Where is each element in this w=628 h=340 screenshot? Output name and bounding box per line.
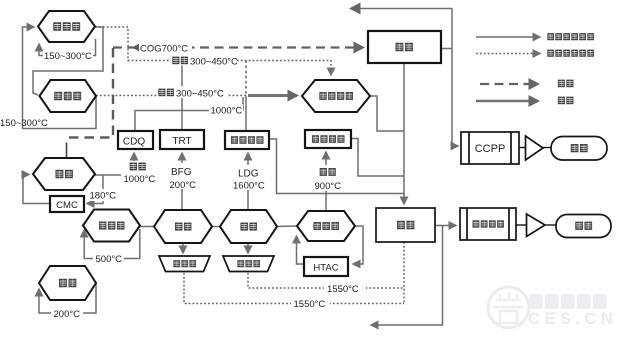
wire: waste heat boiler out to steam header (370, 96, 404, 131)
svg-text:HTAC: HTAC (313, 263, 338, 274)
connector triangle-stadium (543, 147, 551, 149)
label 高炉 (175, 223, 191, 231)
wire: junction down into vaporizer1 (245, 96, 247, 132)
box 烟道汽化 1 (225, 131, 269, 149)
label 1000C steam header (209, 104, 243, 116)
label 环冷机 (54, 92, 81, 100)
hexagon 热风炉 hot blast stove (83, 210, 140, 242)
stadium 发电 2 (556, 215, 611, 238)
box 烟道汽化 2 (305, 130, 351, 148)
wire: converter down to slag (247, 243, 249, 253)
wire dotted: converter slag 1550C line (upper) (248, 273, 404, 288)
svg-text:CCPP: CCPP (475, 143, 506, 155)
svg-text:300~450°C: 300~450°C (176, 89, 224, 100)
wire dotted: vertical link flue-gas line down to waste-gas line (245, 61, 247, 96)
wire: vaporizer2 out to steam header (351, 139, 404, 177)
label 发电 2 (575, 222, 592, 230)
wire: gas box up and left across top (recycled gas) (351, 9, 452, 49)
trapezoid 转炉渣 converter slag (223, 256, 274, 272)
wire: TRT up to flue-gas dotted line (181, 61, 183, 131)
wire dotted: cooler waste gas line (96, 95, 246, 97)
label 热风炉 (99, 222, 124, 230)
box HTAC (304, 257, 348, 276)
box CMC (50, 196, 84, 212)
svg-text:200°C: 200°C (54, 309, 81, 320)
label 1550C lower (291, 297, 330, 309)
hexagon 环冷机 circular cooler (40, 80, 97, 112)
legend dotted: unused waste heat (476, 53, 540, 55)
trapezoid 高炉渣 BF slag (159, 256, 210, 272)
triangle 1 (526, 136, 544, 160)
label 烟道汽化 1 (231, 136, 264, 144)
wire: reheat furnace up to vaporizer2 (gas 900C) (325, 152, 327, 211)
box 煤气 gas (368, 31, 441, 63)
arrowhead left on COG line (132, 43, 141, 51)
wire: converter - reheat furnace link (277, 225, 297, 228)
svg-text:150~300°C: 150~300°C (44, 51, 92, 62)
wire: gas box down to steam box (403, 63, 405, 204)
box TRT (160, 130, 204, 149)
legend solid: already used waste heat (476, 36, 540, 38)
wire: coke oven down to CMC 180C (87, 175, 103, 204)
label 180C (87, 189, 117, 201)
legend label 余热 (558, 97, 574, 105)
label 煤气 gas box (395, 43, 412, 51)
svg-text:1000°C: 1000°C (124, 174, 156, 185)
wire: hot stove self loop 500C (84, 229, 140, 259)
wire: lime kiln self loop 200C (39, 283, 96, 313)
label 200C (51, 307, 83, 319)
wire: steam branch down and left arrow (371, 226, 443, 326)
label 灰窑 (59, 279, 76, 287)
svg-text:1000°C: 1000°C (211, 105, 243, 116)
svg-text:1600°C: 1600°C (233, 180, 265, 191)
wire: CDQ top to 1000C header (135, 97, 243, 131)
svg-text:500°C: 500°C (96, 254, 123, 265)
label COG700C (139, 42, 192, 53)
svg-text:CDQ: CDQ (123, 136, 145, 147)
box 蒸汽 steam (376, 208, 435, 242)
label 蒸汽 (397, 221, 414, 229)
label 500C (93, 252, 124, 264)
svg-text:150~300°C: 150~300°C (0, 118, 48, 129)
label 烟道汽化 2 (312, 135, 345, 143)
label 加热炉 (313, 222, 338, 230)
wire: hot stove - blast furnace link (140, 226, 154, 228)
connector CCPP-triangle (519, 147, 525, 149)
svg-text:LDG: LDG (238, 169, 259, 180)
svg-text:1550°C: 1550°C (294, 299, 326, 310)
svg-text:300~450°C: 300~450°C (190, 56, 238, 67)
hexagon 灰窑 lime kiln (39, 266, 96, 300)
label 烧结机 (53, 22, 80, 30)
svg-text:CMC: CMC (56, 200, 78, 211)
wire: thick arrow into waste heat boiler (248, 94, 297, 97)
wire: HTAC return to reheat furnace (297, 236, 305, 264)
hexagon 焦炉 coke oven (33, 158, 95, 190)
label BFG 200C (167, 163, 198, 189)
wire dashed: vertical boundary (67, 48, 114, 138)
symbol 汽轮机组 (predefined process) (460, 208, 516, 240)
svg-text:1550°C: 1550°C (327, 284, 359, 295)
symbol CCPP (predefined process) (461, 132, 519, 164)
wire: short link into coke oven top (66, 143, 68, 158)
legend label 已经利用余热 (547, 33, 594, 40)
stadium 发电 1 (551, 137, 607, 161)
label 高炉渣 (173, 260, 196, 267)
legend label 余能 (558, 80, 574, 88)
hexagon 加热炉 reheating furnace (297, 211, 355, 241)
wire: blast furnace - converter link (212, 226, 220, 228)
label 余热锅炉 (319, 92, 353, 100)
svg-text:900°C: 900°C (315, 181, 342, 192)
label 汽轮机组 (473, 220, 504, 227)
wire: sinter to cooler (33, 27, 103, 95)
label 红焦 1000C (121, 161, 157, 184)
wire: blast furnace up to TRT (BFG 200C) (181, 153, 183, 210)
label 煤气 900C (312, 165, 344, 191)
label 1550C upper (324, 282, 366, 294)
connector triangle-stadium 2 (545, 224, 556, 226)
label 转炉 (240, 223, 256, 231)
legend dashed: residual energy (480, 83, 538, 85)
wire: sinter self-loop 150~300C (39, 39, 96, 56)
label 150~300C sinter loop (43, 49, 93, 61)
label 焦炉 (55, 170, 72, 178)
label 发电 1 (571, 144, 588, 152)
hexagon 转炉 converter (220, 210, 277, 243)
wire dotted: sinter flue gas to boiler top (95, 27, 331, 75)
triangle 2 (527, 214, 546, 237)
legend label 尚未利用余热 (547, 50, 594, 57)
label LDG 1600C (231, 165, 265, 190)
wire: gas box to CCPP (441, 49, 458, 147)
wire: reheat furnace to HTAC loop (353, 226, 363, 264)
wire: converter up to vaporizer1 (LDG 1600C) (247, 153, 249, 210)
svg-text:180°C: 180°C (90, 191, 117, 202)
wire: steam to turbine (435, 225, 456, 227)
wire: coke oven to CDQ (red coke 1000C) (95, 153, 134, 175)
svg-text:200°C: 200°C (170, 180, 197, 191)
svg-text:TRT: TRT (172, 136, 191, 147)
wire: vaporizer1 out to steam header (269, 139, 404, 194)
legend solid thick: waste heat (476, 100, 538, 102)
svg-text:COG700°C: COG700°C (140, 43, 188, 54)
box CDQ (118, 131, 153, 149)
wire: blast furnace down to slag (182, 243, 184, 253)
connector turbine-triangle (516, 224, 526, 226)
hexagon 高炉 blast furnace (154, 210, 212, 243)
svg-text:BFG: BFG (171, 167, 192, 178)
label 烟气300~450C (171, 54, 237, 66)
wire dashed: COG 700C to gas box (113, 46, 363, 48)
wire dotted: BF slag 1550C line (lower) (184, 273, 404, 304)
wire dotted: vertical up to steam box (403, 242, 405, 304)
hexagon 余热锅炉 waste heat boiler (302, 80, 370, 112)
wire: cooler-to-sinter return loop (left tall loop) (23, 27, 97, 129)
label 废气300~450C (157, 86, 228, 98)
svg-text:CES.CN: CES.CN (528, 310, 617, 328)
wire: CMC return to coke oven (23, 175, 50, 204)
label 转炉渣 (237, 260, 260, 267)
hexagon 烧结机 sinter machine (38, 11, 95, 42)
